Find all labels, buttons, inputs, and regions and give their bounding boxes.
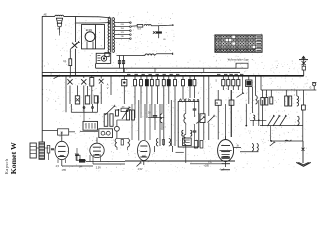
- svg-text:G: G: [310, 87, 312, 90]
- svg-text:1M: 1M: [215, 102, 218, 105]
- svg-text:Wellenschalter-Lage: Wellenschalter-Lage: [228, 58, 250, 61]
- svg-text:↓: ↓: [107, 92, 108, 95]
- svg-text:4,5V: 4,5V: [138, 168, 143, 171]
- svg-text:EFM1: EFM1: [86, 29, 93, 32]
- svg-text:1M: 1M: [122, 106, 125, 108]
- svg-text:2,5V: 2,5V: [96, 166, 101, 169]
- svg-text:AE: AE: [44, 13, 48, 16]
- svg-text:+185: +185: [204, 165, 210, 168]
- svg-text:1TB: 1TB: [62, 169, 67, 172]
- svg-text:1,5k: 1,5k: [208, 162, 212, 164]
- svg-text:Komet W: Komet W: [9, 142, 18, 174]
- svg-text:Sich: Sich: [137, 28, 141, 30]
- svg-text:4 µF: 4 µF: [220, 168, 225, 171]
